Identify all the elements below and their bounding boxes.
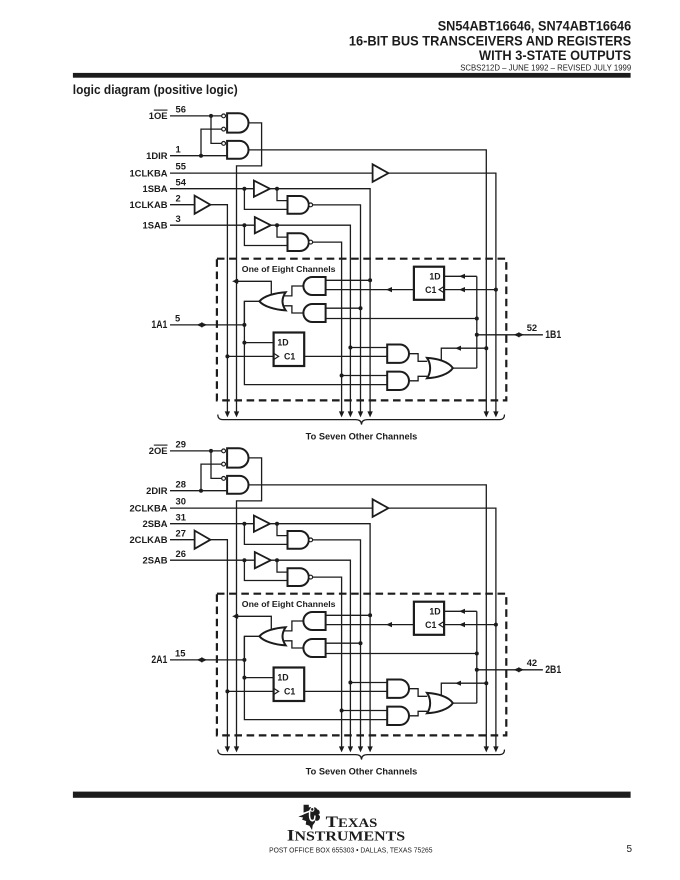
inverter bubble N2 output [309,575,313,579]
arrowhead 2A1 bidir left [197,657,203,662]
svg-text:2CLKBA: 2CLKBA [129,502,167,513]
wire B-data vertical [476,276,478,368]
svg-text:2SAB: 2SAB [142,554,167,565]
brace: to seven other channels [218,750,505,760]
arrowhead A-enable tap arrow [232,614,238,619]
svg-text:1D: 1D [429,272,440,282]
wire SAB raw tap to NAND N2 [244,225,287,245]
wire SBA buffered to bus [270,524,370,747]
inverter bubble G1 input b [222,127,226,131]
NAND gate N1 (SBA select) [288,196,309,214]
junction 1SAB node b [275,223,279,227]
arrowhead 1B1 bidir left [514,332,520,337]
svg-text:55: 55 [176,161,186,172]
wire N2 select to AND-D [342,375,388,377]
svg-text:INSTRUMENTS: INSTRUMENTS [287,828,405,845]
wire SAB buffered to bus [271,225,351,412]
wire net 2OE [170,450,222,452]
wire SAB buffered tap to NAND N2 [277,560,288,572]
junction B-data tap node [475,317,479,321]
wire net 2B1 terminal [477,669,543,671]
junction 2OE node [209,449,213,453]
junction SBA-buffered select node [368,613,372,617]
arrowhead 2A1 bidir right [201,657,207,662]
AND gate G2 (1OE/1DIR B-enable) [227,141,248,159]
AND gate C (stored A path) [387,680,409,698]
wire CLKAB buffered to bus [210,540,227,747]
junction A1 line node [242,658,246,662]
wire AND-A data input from register R2 [326,624,414,626]
svg-text:C1: C1 [425,285,436,295]
register R2 (B-to-A, 1D/C1) [414,267,444,300]
svg-text:1OE: 1OE [149,110,168,121]
svg-text:56: 56 [176,104,186,115]
svg-text:WITH 3-STATE OUTPUTS: WITH 3-STATE OUTPUTS [479,47,631,63]
inverter bubble G1 input a [222,449,226,453]
arrowhead 1A1 bidir left [197,322,203,327]
wire AND-A data input from register R2 [326,289,414,291]
header rule [73,73,631,78]
arrowhead 1B1 bidir right [518,332,524,337]
junction 1SBA node a [242,187,246,191]
NAND gate N1 (SBA select) [288,531,309,549]
svg-text:1D: 1D [429,607,440,617]
svg-text:C1: C1 [284,687,295,697]
wire A-data to register R1 D input [244,677,273,679]
arrowhead 1A1 bidir right [201,322,207,327]
svg-text:30: 30 [176,496,186,507]
arrowhead flow into AND-A [386,622,392,627]
svg-text:1D: 1D [277,673,288,683]
R2 clock chevron [439,286,444,292]
NAND gate N2 (SAB select) [288,568,309,586]
svg-text:29: 29 [176,439,186,450]
wire N2 output to bus [313,577,342,747]
junction N1 select node [359,306,363,310]
svg-text:SCBS212D – JUNE 1992 – REVISED: SCBS212D – JUNE 1992 – REVISED JULY 1999 [460,64,631,73]
R2 clock chevron [439,621,444,627]
inverter bubble G2 input a [222,142,226,146]
buffer buffer 1CLKBA [373,164,389,182]
svg-text:1D: 1D [277,338,288,348]
wire net 2SBA [170,523,254,525]
wire B-data vertical [476,611,478,703]
arrowhead flow into R2 C1 [459,287,465,292]
svg-text:1CLKBA: 1CLKBA [129,167,167,178]
svg-text:2OE: 2OE [149,445,168,456]
arrowhead A-enable bus exit [234,411,239,417]
svg-text:1CLKAB: 1CLKAB [129,199,167,210]
inverter bubble N1 output [309,203,313,207]
overline for 1OE [154,109,168,111]
junction SAB-buffered select node [348,681,352,685]
wire net 2SAB [170,559,255,561]
wire CLKBA to R2 C1 [444,624,496,626]
junction A-enable tap node [235,279,239,283]
arrowhead N1 bus exit [358,411,363,417]
arrowhead flow into AND-A [386,287,392,292]
arrowhead flow into R2 D [459,274,465,279]
register R1 (A-to-B, 1D/C1) [274,668,305,702]
junction register R1 D node [242,676,246,680]
wire 2OE branch to gate G2 [211,451,222,479]
svg-text:To Seven Other Channels: To Seven Other Channels [306,767,418,777]
svg-text:5: 5 [175,313,180,324]
wire OR-A input step b [284,641,303,648]
wire AND-A select input [326,614,371,616]
svg-text:3: 3 [176,213,181,224]
register R2 (B-to-A, 1D/C1) [414,602,444,635]
OR gate OR-B (drives 2B1, points right) [427,693,453,713]
brace: to seven other channels [218,415,505,425]
wire A-data to register R1 D input [244,342,273,344]
junction CLKAB clock node [225,689,229,693]
arrowhead CLKAB bus exit [225,411,230,417]
junction 2SAB node a [242,558,246,562]
arrowhead 2B1 bidir right [518,667,524,672]
wire CLKAB to R1 C1 [227,355,273,357]
junction N2 select node [340,709,344,713]
svg-text:SN54ABT16646, SN74ABT16646: SN54ABT16646, SN74ABT16646 [438,17,632,33]
svg-text:31: 31 [176,511,186,522]
arrowhead N1 bus exit [358,746,363,752]
wire net 1DIR [170,155,227,157]
arrowhead flow into OR-B enable [455,346,461,351]
svg-text:26: 26 [176,548,186,559]
wire net 1SBA [170,188,254,190]
AND gate A (stored B path) [303,277,325,295]
AND gate B (real-time B path) [303,304,325,322]
svg-text:15: 15 [175,648,185,659]
inverter bubble G1 input b [222,462,226,466]
wire net 1CLKAB [170,204,195,206]
wire OR-B output to B-data [453,702,477,704]
wire SBA buffered tap to NAND N1 [277,524,288,536]
arrowhead SBA-buffered bus exit [367,411,372,417]
svg-text:2: 2 [176,192,181,203]
svg-text:27: 27 [176,527,186,538]
svg-text:2A1: 2A1 [151,654,167,666]
junction SAB-buffered select node [348,346,352,350]
inverter bubble N2 output [309,240,313,244]
wire A-enable to OR-A driver [237,616,272,630]
wire AND-B data input from B line [326,653,477,655]
svg-text:1B1: 1B1 [545,329,561,341]
wire R1 Q output to AND-C [304,355,387,357]
AND gate B (real-time B path) [303,639,325,657]
OR gate OR-A (drives 2A1, points left) [259,627,285,645]
overline for 2OE [154,444,168,446]
junction 2DIR node [199,489,203,493]
dashed box: one of eight channels [217,259,506,401]
svg-text:To Seven Other Channels: To Seven Other Channels [306,432,418,442]
wire net 2CLKBA [170,507,373,509]
wire net 2CLKAB [170,539,195,541]
arrowhead CLKAB bus exit [225,746,230,752]
arrowhead N2 bus exit [339,411,344,417]
junction B-enable tap node [484,681,488,685]
wire AND-B select input [326,642,361,644]
buffer buffer 1SAB [255,217,271,233]
junction 1SAB node a [242,223,246,227]
inverter bubble N1 output [309,538,313,542]
junction 2SAB node b [275,558,279,562]
wire G1 output to A-enable bus [237,458,262,747]
junction SBA-buffered select node [368,278,372,282]
buffer buffer 1CLKAB [195,196,211,214]
wire OR-A output to A-data [244,636,259,660]
junction register R1 D node [242,341,246,345]
inverter bubble G1 input a [222,114,226,118]
arrowhead SAB-buffered bus exit [348,746,353,752]
svg-text:52: 52 [527,322,537,333]
svg-text:1SBA: 1SBA [142,183,167,194]
Texas Instruments logo [298,805,320,830]
buffer buffer 2SBA [254,516,270,532]
junction N2 select node [340,374,344,378]
AND gate A (stored B path) [303,612,325,630]
NAND gate N2 (SAB select) [288,233,309,251]
wire G1 output to A-enable bus [237,123,262,412]
wire SAB-buffered to AND-C [350,682,387,684]
buffer buffer 1SBA [254,181,270,197]
footer rule [73,792,631,798]
junction N1 select node [359,641,363,645]
svg-text:POST OFFICE BOX 655303 • DALLA: POST OFFICE BOX 655303 • DALLAS, TEXAS 7… [269,847,432,854]
junction 1OE node [209,114,213,118]
wire AND-D output step [409,376,427,381]
AND gate C (stored A path) [387,345,409,363]
junction B1 line node [475,668,479,672]
arrowhead CLKBA bus exit [493,746,498,752]
buffer buffer 2CLKBA [373,499,389,517]
AND gate D (real-time A path) [387,372,409,390]
arrowhead B-enable bus exit [484,746,489,752]
wire AND-C output step [409,354,427,362]
wire N1 output to bus [313,540,361,747]
svg-text:1SAB: 1SAB [142,219,167,230]
svg-text:C1: C1 [425,620,436,630]
wire N2 select to AND-D [342,710,388,712]
junction 1DIR node [199,154,203,158]
svg-text:2B1: 2B1 [545,664,561,676]
AND gate D (real-time A path) [387,707,409,725]
OR gate OR-B (drives 1B1, points right) [427,358,453,378]
svg-text:1DIR: 1DIR [146,150,168,161]
dashed box: one of eight channels [217,594,506,736]
wire 2DIR branch to gate G1 [201,464,222,491]
junction 1SBA node b [275,187,279,191]
wire OR-A input step a [284,621,303,631]
svg-text:2DIR: 2DIR [146,485,168,496]
wire net 1A1 terminal [170,324,244,326]
arrowhead B-enable bus exit [484,411,489,417]
svg-text:2CLKAB: 2CLKAB [129,534,167,545]
wire SBA raw tap to NAND N1 [244,189,287,210]
junction CLKBA clock node [494,623,498,627]
AND gate G1 (1OE/1DIR A-enable) [227,113,248,132]
junction A1 line node [242,323,246,327]
wire R1 Q output to AND-C [304,690,387,692]
junction 2SBA node a [242,522,246,526]
arrowhead SBA-buffered bus exit [367,746,372,752]
svg-text:28: 28 [176,478,186,489]
arrowhead SAB-buffered bus exit [348,411,353,417]
wire SAB buffered to bus [271,560,351,747]
wire B-data to R2 D input [444,275,477,277]
wire AND-B data input from B line [326,318,477,320]
wire SBA buffered to bus [270,189,370,412]
AND gate G1 (2OE/2DIR A-enable) [227,448,248,467]
wire OR-A input step b [284,306,303,313]
svg-text:logic diagram (positive logic): logic diagram (positive logic) [73,83,238,97]
junction B-data tap node [475,652,479,656]
register R1 (A-to-B, 1D/C1) [274,333,305,367]
wire net 1CLKBA [170,172,373,174]
wire B-enable to OR-B driver [441,683,486,696]
wire net 1OE [170,115,222,117]
wire CLKAB buffered to bus [210,205,227,412]
wire net 2DIR [170,490,227,492]
wire 1OE branch to gate G2 [211,116,222,143]
arrowhead flow into R2 C1 [459,622,465,627]
junction 2SBA node b [275,522,279,526]
wire N2 output to bus [313,242,342,412]
wire CLKBA to R2 C1 [444,289,496,291]
junction B-enable tap node [484,346,488,350]
arrowhead CLKBA bus exit [493,411,498,417]
wire A-data vertical [244,636,387,719]
wire SBA buffered tap to NAND N1 [277,189,288,201]
arrowhead A-enable bus exit [234,746,239,752]
wire net 2A1 terminal [170,659,244,661]
wire SAB raw tap to NAND N2 [244,560,287,580]
svg-text:42: 42 [527,657,537,668]
wire SBA raw tap to NAND N1 [244,524,287,545]
wire CLKBA buffered to bus [388,173,496,412]
wire AND-D output step [409,711,427,716]
arrowhead flow into R2 D [459,609,465,614]
wire AND-C output step [409,689,427,697]
arrowhead 2B1 bidir left [514,667,520,672]
wire G2 output to B-enable bus [249,150,487,412]
R1 clock chevron [274,353,279,359]
svg-text:5: 5 [626,844,632,855]
junction A-enable tap node [235,614,239,618]
junction CLKBA clock node [494,288,498,292]
svg-text:2SBA: 2SBA [142,518,167,529]
R1 clock chevron [274,688,279,694]
arrowhead A-enable tap arrow [232,279,238,284]
svg-text:One of Eight Channels: One of Eight Channels [242,599,336,609]
wire B-enable to OR-B driver [441,348,486,361]
svg-text:One of Eight Channels: One of Eight Channels [242,264,336,274]
wire net 1B1 terminal [477,334,543,336]
arrowhead N2 bus exit [339,746,344,752]
wire CLKBA buffered to bus [388,508,496,747]
wire SAB-buffered to AND-C [350,347,387,349]
svg-text:54: 54 [176,176,187,187]
AND gate G2 (2OE/2DIR B-enable) [227,476,248,494]
wire A-data vertical [244,301,387,384]
buffer buffer 2SAB [255,552,271,568]
wire B-data to R2 D input [444,610,477,612]
svg-text:16-BIT BUS TRANSCEIVERS AND RE: 16-BIT BUS TRANSCEIVERS AND REGISTERS [349,33,631,49]
wire OR-A input step a [284,286,303,296]
buffer buffer 2CLKAB [195,531,211,549]
wire OR-B output to B-data [453,367,477,369]
wire A-enable to OR-A driver [237,281,272,295]
junction B1 line node [475,333,479,337]
wire 1DIR branch to gate G1 [201,129,222,156]
wire N1 output to bus [313,205,361,412]
svg-text:C1: C1 [284,352,295,362]
wire net 1SAB [170,224,255,226]
wire AND-B select input [326,307,361,309]
wire OR-A output to A-data [244,301,259,325]
svg-text:1A1: 1A1 [151,319,167,331]
svg-text:1: 1 [176,143,181,154]
wire G2 output to B-enable bus [249,485,487,747]
OR gate OR-A (drives 1A1, points left) [259,292,285,310]
junction CLKAB clock node [225,354,229,358]
wire CLKAB to R1 C1 [227,690,273,692]
inverter bubble G2 input a [222,477,226,481]
wire AND-A select input [326,279,371,281]
arrowhead flow into OR-B enable [455,681,461,686]
wire SAB buffered tap to NAND N2 [277,225,288,237]
